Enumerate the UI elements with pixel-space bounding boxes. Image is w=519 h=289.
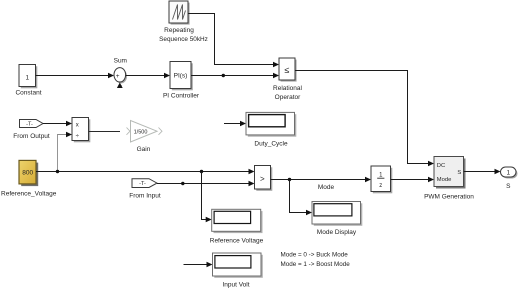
junction: Mode Display branch [288, 178, 291, 181]
wire: branch to Reference Voltage display [202, 172, 212, 223]
svg-text:Repeating: Repeating [164, 27, 194, 34]
wire: From Input to Greater input 2 [157, 181, 255, 187]
wire: Sum to PI Controller [126, 73, 170, 79]
block: Reference_Voltage constant (yellow) [1, 160, 57, 197]
svg-text:S: S [506, 183, 511, 190]
svg-text:z: z [379, 183, 382, 189]
wire: Reference_Voltage to Greater input 1 [36, 169, 255, 175]
wire: Repeating Sequence to Relational Operator [188, 14, 279, 68]
svg-text:DC: DC [437, 163, 445, 169]
block: Duty_Cycle display [246, 112, 296, 147]
wire: Reference_Voltage branch up to Divide input 2 [58, 132, 73, 172]
svg-text:PI(s): PI(s) [174, 73, 188, 80]
svg-text:Mode = 0 -> Buck Mode: Mode = 0 -> Buck Mode [281, 251, 349, 258]
svg-text:800: 800 [22, 170, 33, 177]
block: Greater relational operator [255, 166, 273, 191]
block: PI Controller [163, 62, 200, 100]
svg-text:1: 1 [25, 74, 29, 81]
block: Relational Operator [273, 58, 302, 101]
svg-text:Input Volt: Input Volt [222, 282, 249, 289]
block: Repeating Sequence 50kHz [159, 1, 208, 43]
junction: display branch on Reference_Voltage wire [200, 170, 203, 173]
svg-text:x: x [76, 122, 79, 128]
block: From Output goto tag [13, 120, 50, 141]
wire: Greater to Unit Delay [271, 177, 372, 183]
wire: From Output to Divide input 1 [43, 121, 72, 127]
svg-text:-T-: -T- [26, 122, 33, 128]
wire: branch to Mode Display [290, 180, 313, 216]
wire: stub into Input Volt display [184, 262, 213, 268]
wire: PI Controller to Relational Operator [191, 73, 279, 79]
svg-text:Sum: Sum [114, 58, 127, 65]
svg-text:Mode = 1 -> Boost Mode: Mode = 1 -> Boost Mode [281, 261, 351, 268]
svg-text:-T-: -T- [139, 181, 146, 187]
svg-text:>: > [260, 175, 265, 184]
svg-text:Mode Display: Mode Display [317, 229, 357, 236]
block: Unit Delay 1/z [371, 166, 392, 193]
wire: Relational Operator to PWM Generation DC input [295, 71, 434, 167]
wire: Unit Delay to PWM Generation Mode input [391, 177, 434, 183]
svg-text:Mode: Mode [437, 177, 452, 183]
wire: branch to Duty_Cycle display [224, 121, 246, 127]
block: From Input goto tag [129, 179, 161, 200]
svg-text:≤: ≤ [285, 65, 290, 75]
svg-text:Gain: Gain [137, 146, 151, 153]
svg-text:Sequence 50kHz: Sequence 50kHz [159, 36, 208, 43]
wire: PWM Generation to output port S [464, 169, 501, 175]
svg-text:S: S [457, 170, 461, 176]
wire: Divide output stub [89, 131, 120, 133]
svg-text:Reference_Voltage: Reference_Voltage [1, 190, 57, 197]
svg-text:PWM Generation: PWM Generation [424, 193, 474, 200]
block: PWM Generation subsystem [424, 157, 474, 201]
svg-text:From Output: From Output [13, 133, 50, 140]
svg-text:Relational: Relational [273, 85, 302, 92]
svg-text:1: 1 [506, 170, 510, 177]
wire: Constant to Sum [36, 73, 115, 79]
svg-text:Reference Voltage: Reference Voltage [210, 237, 264, 244]
block: Reference Voltage display [210, 209, 264, 244]
block: Constant [15, 65, 41, 97]
junction: dot on From Input wire [181, 182, 184, 185]
block: Input Volt display [213, 253, 263, 289]
junction: divide branch on Reference_Voltage wire [56, 170, 59, 173]
svg-text:1/500: 1/500 [134, 130, 148, 136]
svg-text:Mode: Mode [318, 184, 335, 191]
junction: Duty_Cycle branch on PI output [222, 74, 225, 77]
block: Sum [114, 58, 127, 89]
block: output port 1 (S) [501, 167, 518, 190]
svg-text:PI Controller: PI Controller [163, 93, 200, 100]
block: Divide [72, 118, 90, 143]
svg-text:Constant: Constant [15, 90, 41, 97]
block: Mode Display [312, 202, 362, 236]
block: Gain (commented out, gray) [127, 121, 163, 154]
svg-text:From Input: From Input [129, 192, 161, 199]
svg-text:Duty_Cycle: Duty_Cycle [254, 140, 288, 147]
svg-text:Operator: Operator [275, 94, 301, 101]
